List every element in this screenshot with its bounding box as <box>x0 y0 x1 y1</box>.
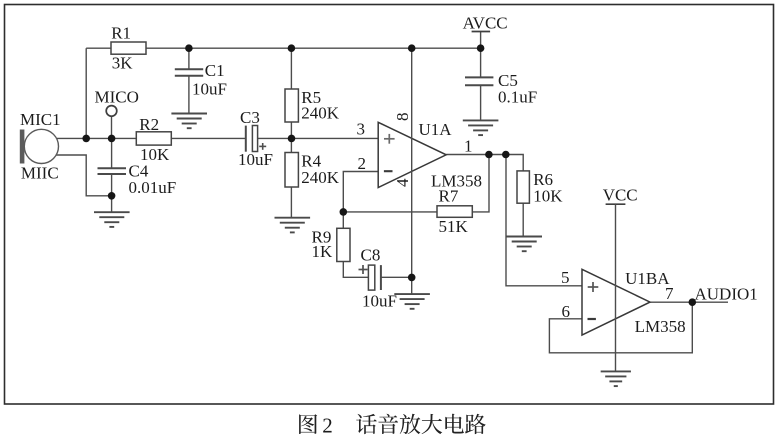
svg-text:VCC: VCC <box>603 186 638 205</box>
ground under C4 <box>94 212 130 227</box>
junction node output/R7 <box>485 151 493 159</box>
capacitor C5 plates <box>465 77 493 85</box>
ground under U1A pin4 / C8 <box>394 294 430 309</box>
caption character 音 <box>378 414 398 434</box>
resistor R1 body <box>111 42 146 54</box>
svg-text:1K: 1K <box>312 242 334 261</box>
capacitor C3 polar plate box <box>252 126 257 152</box>
op-amp U1A plus input mark <box>384 134 395 144</box>
junction node AVCC rail <box>477 44 485 52</box>
junction node C1 top rail <box>185 44 193 52</box>
wire: C4 bottom lead to ground <box>111 174 113 212</box>
wire: left vertical R1 to mic node <box>85 48 87 138</box>
capacitor C8 plus mark <box>359 265 368 274</box>
svg-text:3K: 3K <box>112 54 134 73</box>
svg-text:2: 2 <box>322 414 333 438</box>
junction node R5 top rail <box>288 44 296 52</box>
wire: U1A pin2 to feedback node <box>343 172 378 212</box>
wire: VCC vertical rail through U1BA triangle to ground <box>615 204 617 371</box>
svg-text:R1: R1 <box>111 24 131 43</box>
svg-text:C1: C1 <box>205 61 225 80</box>
svg-text:0.1uF: 0.1uF <box>498 87 537 106</box>
svg-text:240K: 240K <box>301 104 340 123</box>
svg-text:10uF: 10uF <box>192 79 227 98</box>
resistor R5 body <box>285 89 298 122</box>
ground under U1BA <box>601 371 631 386</box>
svg-text:51K: 51K <box>439 217 469 236</box>
wire: MICO drop to main line <box>111 116 113 138</box>
wire: R9 top lead <box>342 212 344 228</box>
svg-text:0.01uF: 0.01uF <box>129 178 177 197</box>
svg-text:8: 8 <box>393 113 412 122</box>
svg-text:7: 7 <box>665 284 674 303</box>
wire: U1BA pin6 unity feedback loop <box>549 302 692 353</box>
microphone MIC1 element bar <box>20 130 25 164</box>
caption character 大 <box>422 414 443 434</box>
wire: C8 right plate to pin4 rail <box>381 276 412 278</box>
wire: U1A pin8/pin4 vertical rail through triangle to ground <box>411 48 413 294</box>
wire: R4 top lead <box>290 138 292 152</box>
junction node AUDIO1/feedback <box>689 298 697 306</box>
junction node C3/R5/R4 <box>288 135 296 143</box>
op-amp U1A minus input mark <box>384 170 393 172</box>
op-amp U1BA triangle <box>582 269 650 335</box>
wire: C1 top lead <box>188 48 190 69</box>
wire: top rail R1 to AVCC <box>86 47 480 49</box>
wire: output down to U1BA pin5 <box>506 155 582 286</box>
node MICO open terminal circle <box>106 106 117 117</box>
svg-text:10K: 10K <box>533 186 563 205</box>
capacitor C3 plus mark <box>259 143 266 150</box>
svg-text:AVCC: AVCC <box>463 14 508 33</box>
junction node MICO/main <box>108 135 116 143</box>
junction node mic/R1 <box>82 135 90 143</box>
svg-text:2: 2 <box>358 154 367 173</box>
junction node C4 bottom <box>108 192 116 200</box>
svg-text:4: 4 <box>393 178 412 187</box>
resistor R6 body <box>517 171 529 203</box>
wire: C5 bottom lead to ground <box>480 85 482 120</box>
wire: C3 right plate to U1A pin3 <box>258 137 379 139</box>
resistor R7 body <box>437 206 472 218</box>
resistor R4 body <box>285 153 298 188</box>
svg-text:R2: R2 <box>139 115 159 134</box>
wire: C1 bottom lead to ground <box>188 76 190 114</box>
junction node C8/pin4 rail <box>408 274 416 282</box>
ground under C5 <box>463 120 499 135</box>
svg-text:U1A: U1A <box>419 120 453 139</box>
svg-text:AUDIO1: AUDIO1 <box>695 285 758 304</box>
svg-text:6: 6 <box>562 302 571 321</box>
svg-text:C3: C3 <box>240 108 260 127</box>
VCC power bar <box>606 203 626 205</box>
junction node pin2/R7/R9 <box>340 208 348 216</box>
svg-text:MIC1: MIC1 <box>20 110 61 129</box>
ground under R6 <box>506 237 542 252</box>
resistor R2 body <box>136 132 171 145</box>
svg-text:MIIC: MIIC <box>21 163 59 182</box>
junction node pin8 top rail <box>408 44 416 52</box>
wire: U1A output to R6 top <box>446 155 523 171</box>
wire: R6 bottom lead to ground <box>522 203 524 236</box>
caption character 路 <box>465 414 486 434</box>
caption character 电 <box>445 414 464 434</box>
wire: R9 bottom to C8 plus plate <box>343 262 368 278</box>
wire: U1BA output to AUDIO1 <box>650 301 728 303</box>
svg-text:U1BA: U1BA <box>625 269 670 288</box>
microphone MIC1 body circle <box>24 129 58 163</box>
wire: main signal mic to C3 left plate <box>56 137 246 139</box>
svg-text:MICO: MICO <box>95 88 139 107</box>
AVCC power bar <box>472 31 491 33</box>
junction node output/pin5 <box>502 151 510 159</box>
svg-text:5: 5 <box>561 268 570 287</box>
caption figure number 图 glyph <box>299 414 317 434</box>
wire: R5 top lead <box>290 48 292 89</box>
wire: R5 bottom lead <box>290 122 292 138</box>
svg-text:3: 3 <box>357 119 366 138</box>
svg-text:1: 1 <box>464 137 473 156</box>
svg-text:C8: C8 <box>361 245 381 264</box>
wire: C4 top lead <box>111 138 113 168</box>
op-amp U1A triangle <box>378 122 446 187</box>
capacitor C8 polar plate box <box>368 265 374 290</box>
wire: feedback node through R7 to output <box>343 155 489 212</box>
svg-text:240K: 240K <box>301 168 340 187</box>
capacitor C8 thin plate <box>380 265 382 290</box>
ground under C1 <box>171 114 207 129</box>
wire: mic lower lead to C4 bottom node <box>57 155 112 196</box>
op-amp U1BA plus input mark <box>588 282 599 292</box>
svg-text:R7: R7 <box>439 186 459 205</box>
svg-text:LM358: LM358 <box>635 317 686 336</box>
caption character 话 <box>356 414 377 434</box>
resistor R9 body <box>337 228 350 261</box>
ground under R4 <box>275 218 311 233</box>
capacitor C1 plates <box>175 69 203 76</box>
wire: AVCC to C5 top plate <box>480 32 482 78</box>
capacitor C4 plates <box>98 168 127 174</box>
caption character 放 <box>400 414 421 434</box>
wire: R4 bottom lead to ground <box>290 187 292 218</box>
op-amp U1BA minus input mark <box>588 318 596 320</box>
svg-text:10uF: 10uF <box>362 292 397 311</box>
capacitor C3 thin plate <box>245 126 247 152</box>
svg-text:10uF: 10uF <box>238 150 273 169</box>
